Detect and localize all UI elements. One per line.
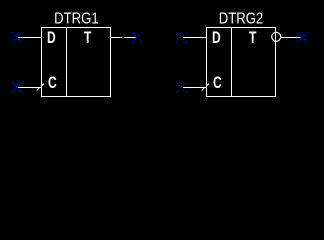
wire to U1 pin D [18,37,42,39]
svg-text:D: D [47,29,56,47]
wire from U1 output [110,37,136,39]
wire to U2 pin D [183,37,207,39]
node marker at U2 D input [176,32,186,42]
U1 internal divider [66,28,68,97]
flip-flop U2 body outline [207,28,276,97]
node marker at U2 C input [176,82,186,92]
node marker at U1 D input [11,32,21,42]
svg-text:D: D [212,29,221,47]
svg-text:DTRG1: DTRG1 [54,10,98,27]
svg-text:T: T [84,29,91,47]
U1 C pin connection tick [37,84,44,91]
U2 internal divider [231,28,233,97]
svg-text:C: C [48,74,57,92]
node marker at U2 output [297,32,307,42]
svg-text:T: T [249,29,256,47]
node marker at U1 C input [11,82,21,92]
svg-text:C: C [213,74,222,92]
flip-flop U1 body outline [42,28,111,97]
node marker at U1 output [132,32,142,42]
U2 output inversion bubble [272,32,281,41]
wire from U2 output bubble [281,37,301,39]
wire to U1 pin C [18,87,42,89]
svg-text:DTRG2: DTRG2 [219,10,263,27]
wire to U2 pin C [183,87,207,89]
U2 C pin connection tick [202,84,209,91]
